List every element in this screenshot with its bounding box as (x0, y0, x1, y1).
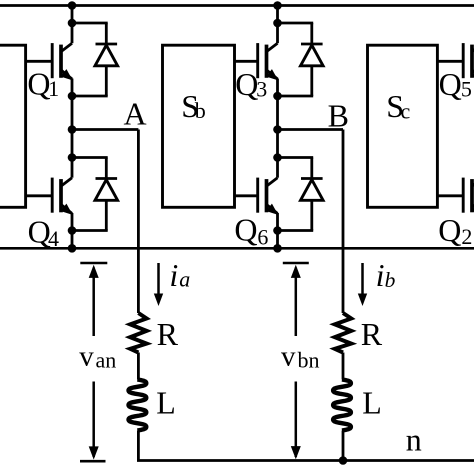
junction dot leg Q4 on bottom bus (68, 244, 77, 253)
transistor Q2 emitter diagonal (472, 205, 474, 214)
transistor Q5 emitter arrowhead (471, 69, 474, 80)
junction dot phase node (68, 125, 77, 134)
svg-text:n: n (406, 422, 422, 458)
van arrow upper head (89, 265, 99, 278)
gate driver box Sa (0, 45, 26, 207)
svg-text:v: v (281, 341, 296, 373)
wire D-Q1 top branch (72, 22, 108, 25)
wire neutral bottom (137, 459, 474, 462)
transistor Q6 emitter lead (276, 213, 279, 231)
wire bottom DC bus (0, 247, 474, 250)
svg-text:Q: Q (234, 212, 257, 248)
node dot Q4 collector split (68, 153, 77, 162)
transistor Q2 gate bar (462, 178, 465, 213)
wire D-Q6 anode lead (310, 200, 313, 230)
svg-text:L: L (362, 384, 382, 420)
transistor Q1 emitter diagonal (61, 70, 72, 79)
tick bottom of van arrow (80, 460, 106, 463)
wire leg Q6 emitter to bottom bus (276, 231, 279, 249)
junction dot Q3 emitter (273, 92, 282, 101)
svg-text:1: 1 (48, 76, 59, 101)
wire top DC bus (0, 4, 474, 7)
transistor Q1 gate bar (51, 43, 54, 78)
resistor R phase A (130, 313, 146, 353)
wire leg between Q1 emitter and phase node (71, 96, 74, 130)
wire phase A to neutral (137, 431, 140, 461)
svg-text:5: 5 (461, 77, 472, 102)
transistor Q1 body bar (59, 45, 63, 78)
wire leg Q1 from bus (71, 6, 74, 24)
wire D-Q1 bottom branch (72, 95, 108, 98)
van arrow lower segment (92, 382, 95, 458)
svg-text:3: 3 (256, 77, 267, 102)
transistor Q3 collector diagonal (267, 43, 278, 51)
wire D-Q3 bottom branch (278, 95, 314, 98)
node dot Q3 collector split (273, 19, 282, 28)
svg-text:c: c (401, 98, 411, 123)
svg-text:i: i (169, 257, 178, 293)
diode D-Q3 triangle (301, 45, 324, 66)
svg-text:Q: Q (439, 66, 462, 102)
junction dot leg Q3/Q6 on top bus (273, 1, 282, 10)
ia current arrowhead (154, 294, 163, 307)
vbn arrow upper segment (295, 268, 298, 337)
transistor Q3 emitter diagonal (267, 70, 278, 79)
svg-text:R: R (361, 316, 383, 352)
node dot Q1 collector split (68, 19, 77, 28)
wire gate lead Q4 (26, 194, 53, 197)
wire gate lead Q5 (437, 60, 463, 63)
wire D-Q3 top branch (278, 22, 314, 25)
svg-text:Q: Q (235, 66, 258, 102)
transistor Q6 body bar (265, 179, 269, 212)
transistor Q3 body bar (265, 45, 269, 78)
transistor Q6 collector diagonal (267, 178, 278, 186)
vbn arrow upper head (291, 265, 301, 278)
transistor Q1 emitter lead (71, 79, 74, 97)
wire leg between Q3 emitter and phase node (276, 96, 279, 130)
diode D-Q1 cathode bar (96, 43, 118, 46)
svg-text:4: 4 (48, 226, 59, 251)
wire leg between phase node and Q4 (71, 130, 74, 158)
wire D-Q3 cathode lead (310, 23, 313, 44)
svg-text:L: L (156, 384, 176, 420)
svg-text:b: b (385, 268, 396, 292)
junction dot leg Q6 on bottom bus (273, 244, 282, 253)
wire phase B drop (342, 130, 345, 314)
wire D-Q4 cathode lead (105, 158, 108, 179)
junction dot Q1 emitter (68, 92, 77, 101)
svg-text:an: an (96, 347, 117, 372)
transistor Q4 emitter diagonal (61, 205, 72, 214)
van arrow upper segment (92, 268, 95, 337)
transistor Q6 gate bar (256, 178, 259, 213)
svg-text:v: v (79, 341, 94, 373)
wire phase A between R and L (137, 353, 140, 380)
transistor Q5 body bar (470, 45, 474, 78)
svg-text:A: A (124, 95, 147, 131)
diode D-Q1 triangle (95, 45, 118, 66)
transistor Q4 body bar (59, 179, 63, 212)
wire D-Q6 bottom branch (278, 229, 314, 232)
transistor Q6 emitter arrowhead (266, 204, 278, 215)
wire phase A drop (137, 130, 140, 314)
transistor Q5 collector diagonal (472, 43, 474, 51)
transistor Q4 emitter lead (71, 213, 74, 231)
van arrow lower head (89, 446, 99, 459)
junction dot phase node (273, 125, 282, 134)
transistor Q4 collector lead (71, 158, 74, 178)
svg-text:a: a (179, 267, 190, 292)
wire gate lead Q1 (26, 60, 53, 63)
diode D-Q3 cathode bar (301, 43, 323, 46)
ib current arrow line (361, 263, 364, 294)
wire D-Q4 bottom branch (72, 229, 108, 232)
node A output wire (72, 128, 138, 131)
vbn arrow lower head (291, 446, 301, 459)
transistor Q3 emitter arrowhead (266, 69, 278, 80)
wire leg Q4 emitter to bottom bus (71, 231, 74, 249)
wire D-Q4 anode lead (105, 200, 108, 230)
resistor R phase B (335, 313, 351, 353)
gate driver box Sc (368, 45, 438, 207)
wire D-Q6 cathode lead (310, 158, 313, 179)
transistor Q2 emitter arrowhead (471, 204, 474, 215)
inductor L phase B (333, 380, 351, 431)
transistor Q1 collector diagonal (61, 43, 72, 51)
svg-text:R: R (157, 316, 179, 352)
transistor Q4 gate bar (51, 178, 54, 213)
wire leg Q3 from bus (276, 6, 279, 24)
wire gate lead Q3 (235, 60, 258, 63)
tick top of van arrow (80, 262, 107, 265)
transistor Q3 collector lead (276, 23, 279, 43)
wire D-Q1 cathode lead (105, 23, 108, 44)
wire D-Q3 anode lead (310, 66, 313, 96)
svg-text:i: i (376, 257, 385, 293)
vbn arrow lower segment (295, 382, 298, 458)
node dot Q6 collector split (273, 153, 282, 162)
wire leg between phase node and Q6 (276, 130, 279, 158)
junction dot Q6 emitter (273, 226, 282, 235)
transistor Q1 collector lead (71, 23, 74, 43)
transistor Q1 emitter arrowhead (60, 69, 72, 80)
wire phase B between R and L (342, 353, 345, 380)
diode D-Q4 triangle (95, 180, 118, 201)
transistor Q6 emitter diagonal (267, 205, 278, 214)
transistor Q5 gate bar (462, 43, 465, 78)
ia current arrow line (157, 263, 160, 294)
node B output wire (278, 128, 344, 131)
wire gate lead Q6 (235, 194, 258, 197)
diode D-Q6 triangle (301, 180, 324, 201)
gate driver box Sb (163, 45, 235, 207)
transistor Q2 collector diagonal (472, 178, 474, 186)
transistor Q3 gate bar (256, 43, 259, 78)
wire D-Q1 anode lead (105, 66, 108, 96)
wire D-Q6 top branch (278, 156, 314, 159)
transistor Q4 collector diagonal (61, 178, 72, 186)
inductor L phase A (129, 380, 147, 431)
transistor Q3 emitter lead (276, 79, 279, 97)
transistor Q4 emitter arrowhead (60, 204, 72, 215)
diode D-Q4 cathode bar (96, 177, 118, 180)
wire gate lead Q2 (437, 194, 463, 197)
svg-text:2: 2 (461, 224, 472, 249)
wire D-Q4 top branch (72, 156, 108, 159)
junction dot Q4 emitter (68, 226, 77, 235)
svg-text:bn: bn (298, 347, 320, 372)
svg-text:6: 6 (257, 224, 268, 249)
transistor Q5 emitter diagonal (472, 70, 474, 79)
svg-text:b: b (195, 98, 206, 123)
wire phase B to neutral (342, 431, 345, 461)
svg-text:Q: Q (438, 212, 461, 248)
ib current arrowhead (358, 294, 367, 307)
tick top of vbn arrow (283, 262, 309, 265)
svg-text:B: B (328, 97, 349, 133)
junction dot leg Q1/Q4 on top bus (68, 1, 77, 10)
junction dot phase B on neutral (339, 456, 348, 465)
transistor Q6 collector lead (276, 158, 279, 178)
diode D-Q6 cathode bar (301, 177, 323, 180)
transistor Q2 body bar (470, 179, 474, 212)
svg-text:Q: Q (27, 66, 50, 102)
